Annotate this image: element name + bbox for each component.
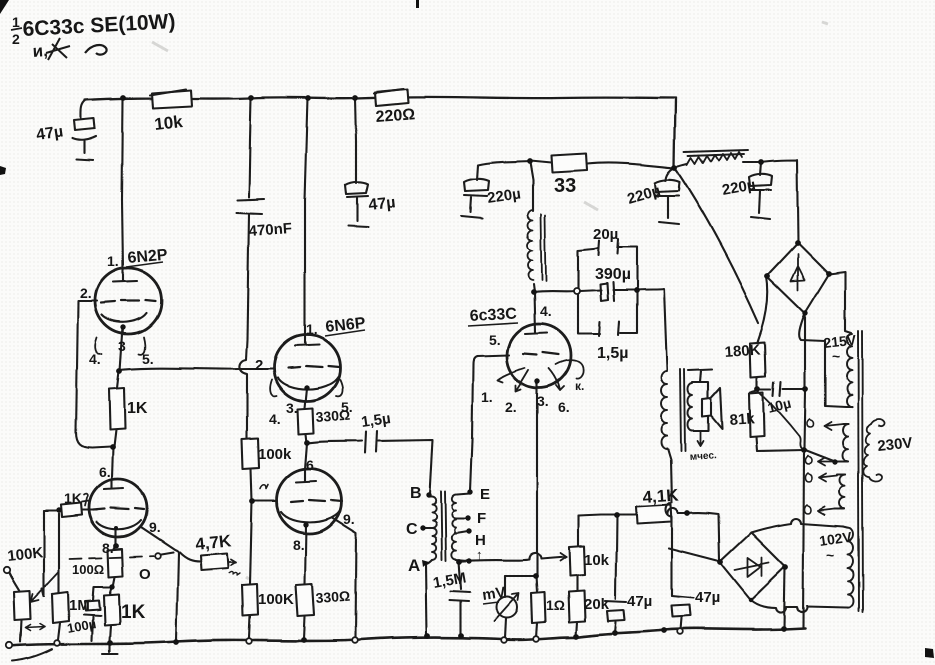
svg-text:4,1K: 4,1K bbox=[642, 485, 680, 507]
svg-text:8.: 8. bbox=[293, 537, 305, 553]
svg-text:~: ~ bbox=[832, 348, 840, 364]
svg-text:10k: 10k bbox=[153, 112, 184, 134]
svg-text:20k: 20k bbox=[584, 596, 610, 613]
svg-text:9.: 9. bbox=[343, 511, 355, 527]
svg-text:390µ: 390µ bbox=[595, 266, 631, 283]
svg-text:3.: 3. bbox=[286, 400, 298, 416]
svg-text:10µ: 10µ bbox=[766, 395, 793, 416]
svg-text:9.: 9. bbox=[149, 519, 161, 535]
svg-text:81k: 81k bbox=[729, 410, 756, 429]
svg-text:47µ: 47µ bbox=[695, 589, 720, 606]
svg-text:1.: 1. bbox=[107, 253, 119, 269]
svg-text:2.: 2. bbox=[505, 399, 517, 415]
svg-text:1.: 1. bbox=[306, 321, 318, 337]
svg-text:6с33C: 6с33C bbox=[469, 306, 517, 325]
svg-text:C: C bbox=[406, 521, 418, 538]
svg-text:1,5µ: 1,5µ bbox=[597, 345, 628, 362]
svg-text:4.: 4. bbox=[540, 303, 552, 319]
svg-text:2: 2 bbox=[12, 31, 20, 47]
svg-text:47µ: 47µ bbox=[627, 593, 652, 610]
svg-text:1K: 1K bbox=[64, 490, 82, 506]
svg-text:100k: 100k bbox=[258, 446, 292, 463]
svg-text:F: F bbox=[477, 510, 486, 527]
svg-text:O: O bbox=[139, 566, 151, 583]
svg-text:1K: 1K bbox=[127, 400, 148, 417]
svg-text:1: 1 bbox=[12, 14, 20, 30]
svg-text:100Ω: 100Ω bbox=[72, 562, 104, 577]
svg-text:100K: 100K bbox=[258, 591, 294, 608]
svg-text:к.: к. bbox=[575, 379, 584, 393]
svg-text:3: 3 bbox=[118, 338, 126, 354]
svg-text:220µ: 220µ bbox=[625, 182, 662, 208]
svg-text:100K: 100K bbox=[7, 544, 45, 565]
svg-text:B: B bbox=[410, 485, 422, 502]
svg-text:1,5µ: 1,5µ bbox=[360, 410, 392, 431]
svg-text:1M: 1M bbox=[69, 597, 90, 614]
svg-text:5.: 5. bbox=[142, 351, 154, 367]
svg-text:↑: ↑ bbox=[476, 547, 483, 562]
svg-text:470nF: 470nF bbox=[248, 220, 292, 240]
svg-text:220Ω: 220Ω bbox=[375, 106, 416, 126]
svg-text:8.: 8. bbox=[102, 540, 114, 556]
svg-text:330Ω: 330Ω bbox=[315, 588, 351, 606]
svg-text:180K: 180K bbox=[724, 342, 761, 361]
svg-text:1K: 1K bbox=[121, 602, 146, 623]
svg-text:5.: 5. bbox=[489, 332, 501, 348]
svg-text:47µ: 47µ bbox=[368, 194, 397, 214]
svg-text:230V: 230V bbox=[877, 434, 914, 455]
svg-text:и,: и, bbox=[32, 41, 48, 61]
svg-text:3.: 3. bbox=[537, 393, 549, 409]
svg-text:6.: 6. bbox=[558, 399, 570, 415]
svg-text:20µ: 20µ bbox=[593, 226, 618, 243]
svg-text:6.: 6. bbox=[306, 457, 318, 473]
svg-text:1.: 1. bbox=[481, 389, 493, 405]
svg-text:330Ω: 330Ω bbox=[315, 407, 351, 425]
svg-text:4.: 4. bbox=[269, 411, 281, 427]
svg-text:220µ: 220µ bbox=[486, 185, 522, 207]
svg-text:2: 2 bbox=[255, 357, 263, 374]
svg-text:mV: mV bbox=[481, 584, 506, 604]
svg-text:6.: 6. bbox=[99, 464, 111, 480]
svg-text:1Ω: 1Ω bbox=[546, 597, 565, 613]
svg-text:6C33c SE(10W): 6C33c SE(10W) bbox=[22, 10, 176, 41]
svg-text:2.: 2. bbox=[80, 285, 92, 301]
svg-text:E: E bbox=[480, 486, 490, 503]
svg-text:220µ: 220µ bbox=[721, 176, 757, 199]
svg-text:47µ: 47µ bbox=[35, 123, 64, 144]
svg-text:A: A bbox=[408, 556, 420, 575]
svg-text:~: ~ bbox=[826, 547, 834, 563]
svg-text:10k: 10k bbox=[584, 552, 610, 569]
svg-text:33: 33 bbox=[554, 175, 576, 197]
svg-text:4.: 4. bbox=[89, 351, 101, 367]
svg-text:мчес.: мчес. bbox=[689, 450, 717, 463]
svg-text:102V: 102V bbox=[818, 528, 853, 548]
svg-text:4,7K: 4,7K bbox=[194, 531, 232, 554]
svg-text:1,5M: 1,5M bbox=[432, 569, 468, 592]
